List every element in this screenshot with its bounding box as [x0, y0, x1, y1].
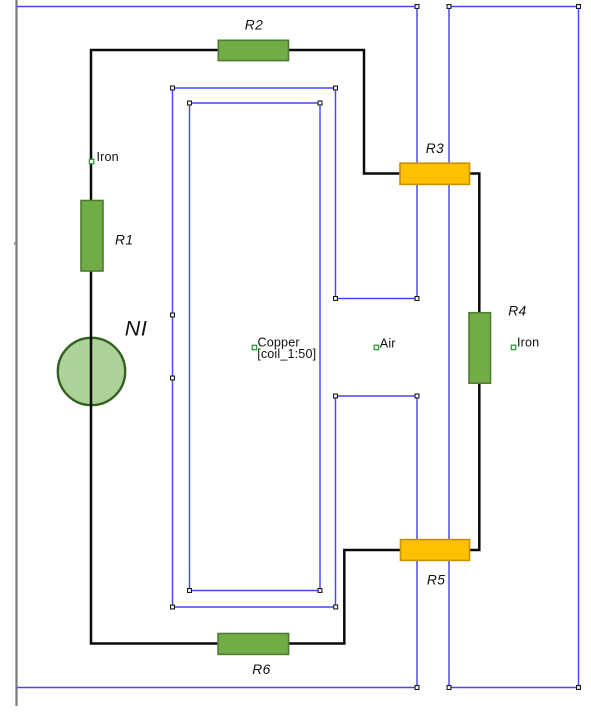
svg-text:Air: Air: [380, 336, 396, 350]
coil inner boundary rectangle: [190, 103, 321, 591]
svg-text:R5: R5: [427, 572, 445, 587]
resistor R6: [218, 634, 289, 655]
source NI circle: [58, 338, 125, 405]
svg-text:R3: R3: [426, 141, 444, 156]
svg-text:R4: R4: [508, 303, 526, 318]
left region boundary bottom wire: [17, 687, 417, 689]
resistor R1: [81, 201, 103, 272]
svg-text:R6: R6: [252, 662, 270, 677]
left region boundary right wire lower: [416, 396, 418, 688]
resistor R4: [469, 313, 491, 384]
resistor R3: [400, 163, 470, 184]
selection handles: [171, 5, 581, 690]
svg-text:Iron: Iron: [517, 336, 539, 350]
svg-text:NI: NI: [125, 317, 148, 341]
svg-text:R2: R2: [245, 17, 263, 32]
left region boundary top wire: [17, 6, 417, 8]
svg-text:Iron: Iron: [97, 150, 119, 164]
coil outer boundary: [173, 88, 336, 607]
circuit wire loop: [91, 50, 479, 644]
svg-text:R1: R1: [115, 233, 133, 248]
resistor R5: [401, 540, 470, 561]
left region boundary right wire upper: [416, 7, 418, 299]
panel edge gray line: [15, 0, 17, 706]
air gap wire upper: [336, 298, 418, 300]
svg-text:[coil_1:50]: [coil_1:50]: [257, 347, 316, 361]
air gap wire lower: [336, 395, 418, 397]
material marker squares: [89, 159, 515, 349]
right region boundary rectangle: [449, 7, 579, 688]
resistor R2: [218, 40, 288, 60]
